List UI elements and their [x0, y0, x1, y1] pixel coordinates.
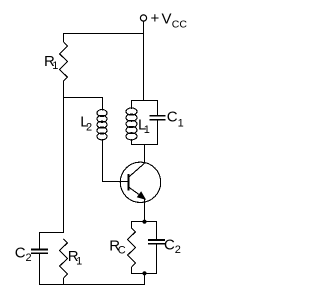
- label R1 top: [44, 53, 58, 72]
- svg-text:C: C: [167, 109, 178, 126]
- svg-text:+: +: [151, 10, 160, 27]
- inductor L1: [126, 100, 137, 145]
- wire left rail middle: [63, 81, 65, 233]
- label C2 left: [15, 245, 32, 264]
- terminal +Vcc: [140, 15, 146, 21]
- svg-text:1: 1: [144, 124, 150, 136]
- label +Vcc: [151, 10, 188, 31]
- left block top wire: [39, 232, 64, 234]
- svg-text:2: 2: [86, 122, 92, 134]
- capacitor C2 right: [148, 222, 165, 275]
- resistor R1 bottom: [60, 239, 68, 278]
- label L1: [138, 117, 150, 136]
- tank bottom wire: [131, 144, 158, 146]
- inductor L2: [97, 98, 107, 183]
- svg-text:1: 1: [178, 118, 184, 130]
- wire collector: [144, 145, 146, 164]
- capacitor C1: [150, 100, 166, 145]
- wire left rail upper lead: [63, 33, 65, 42]
- svg-text:2: 2: [175, 244, 181, 256]
- label C2 right: [164, 237, 181, 256]
- wire top rail: [63, 33, 144, 35]
- capacitor C2 left: [31, 233, 48, 286]
- Rc left lead: [131, 222, 133, 228]
- label C1: [167, 109, 184, 130]
- node dot emitter top: [142, 220, 146, 224]
- wire drop to ground rail: [144, 274, 146, 286]
- label R1 bottom: [68, 248, 82, 268]
- resistor R1 top: [60, 42, 68, 81]
- wire bottom rail: [39, 284, 145, 286]
- label Rc: [109, 238, 125, 257]
- Rc C2 block bottom wire: [131, 273, 157, 275]
- svg-text:C: C: [118, 245, 126, 257]
- wire branch to L2: [64, 97, 104, 99]
- label L2: [80, 114, 92, 134]
- wire emitter: [144, 199, 146, 222]
- transistor Q1: [120, 162, 160, 202]
- node dot block bottom: [142, 271, 146, 275]
- Rc bottom lead: [131, 267, 133, 274]
- svg-text:1: 1: [52, 60, 58, 72]
- svg-text:CC: CC: [172, 19, 188, 31]
- Rc C2 block top wire: [131, 221, 157, 223]
- svg-text:V: V: [162, 11, 172, 28]
- svg-text:C: C: [164, 237, 175, 254]
- wire base: [102, 181, 129, 183]
- svg-text:1: 1: [76, 255, 82, 267]
- svg-text:C: C: [15, 245, 26, 262]
- resistor Rc: [128, 228, 136, 267]
- tank top wire: [131, 100, 158, 102]
- wire Vcc vertical: [143, 21, 145, 101]
- svg-text:2: 2: [26, 252, 32, 264]
- R1 bottom lead: [63, 278, 65, 285]
